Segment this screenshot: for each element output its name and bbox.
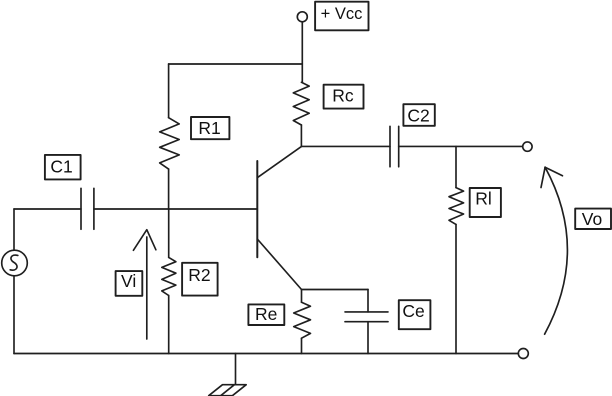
resistor Rl [449, 188, 464, 225]
label +Vcc [315, 2, 368, 31]
wire R1 bottom to input node [168, 169, 170, 209]
label Rc [324, 85, 364, 109]
wire emitter node to Ce [302, 289, 369, 291]
label C1 [45, 155, 81, 180]
svg-text:+ Vcc: + Vcc [321, 5, 363, 23]
svg-text:C1: C1 [50, 156, 72, 176]
wire bottom ground rail [14, 353, 518, 355]
wire emitter to Re [301, 290, 303, 303]
wire input node to C1 [14, 208, 81, 210]
capacitor Ce [345, 312, 388, 322]
wire Re bottom to ground rail [301, 338, 303, 353]
Vo arrow [541, 167, 567, 334]
wire Ce bottom lead [367, 322, 369, 354]
resistor R1 [160, 118, 180, 169]
svg-text:Re: Re [255, 304, 277, 324]
svg-text:C2: C2 [407, 105, 429, 125]
wire R2 branch upper [168, 209, 170, 257]
wire Rc to collector node [300, 125, 302, 146]
capacitor C1 [81, 188, 94, 229]
voltage source VS [2, 250, 28, 276]
Vcc terminal [297, 12, 307, 22]
label Re [248, 304, 284, 325]
label R1 [191, 117, 229, 139]
Vi arrow [133, 230, 156, 339]
wire ground stem [235, 354, 237, 385]
wire top feed R1 to Vcc line [169, 63, 303, 65]
svg-text:Vi: Vi [121, 271, 136, 291]
wire Ce top lead [367, 290, 369, 312]
wire Rl bottom to ground rail [455, 224, 457, 353]
resistor Re [294, 302, 311, 338]
wire R2 bottom to ground rail [168, 296, 170, 354]
label Vi [116, 271, 143, 296]
label Ce [399, 300, 431, 329]
svg-text:Ce: Ce [402, 301, 424, 321]
wire Rl branch upper [455, 146, 457, 187]
svg-text:Rc: Rc [332, 86, 354, 106]
capacitor C2 [390, 126, 399, 167]
wire Vcc terminal to Rc [301, 22, 303, 83]
label R2 [182, 263, 218, 296]
svg-text:R1: R1 [198, 118, 220, 138]
label C2 [403, 104, 434, 126]
resistor Rc [293, 82, 309, 125]
label Rl [470, 188, 501, 217]
wire R1 branch upper [168, 64, 170, 118]
svg-text:R2: R2 [188, 265, 210, 285]
transistor Q1 [257, 146, 301, 289]
wire C1 to base node [94, 208, 257, 210]
resistor R2 [162, 257, 176, 295]
label Vo [575, 209, 611, 230]
wire source top lead [13, 209, 15, 250]
output terminal top [523, 142, 532, 151]
svg-text:Rl: Rl [475, 189, 492, 209]
wire source bottom lead [13, 276, 15, 354]
svg-text:Vo: Vo [582, 209, 602, 229]
output terminal bottom [518, 349, 528, 359]
wire C2 to output terminal [399, 145, 523, 147]
wire collector node to C2 [302, 145, 391, 147]
ground [209, 385, 247, 396]
